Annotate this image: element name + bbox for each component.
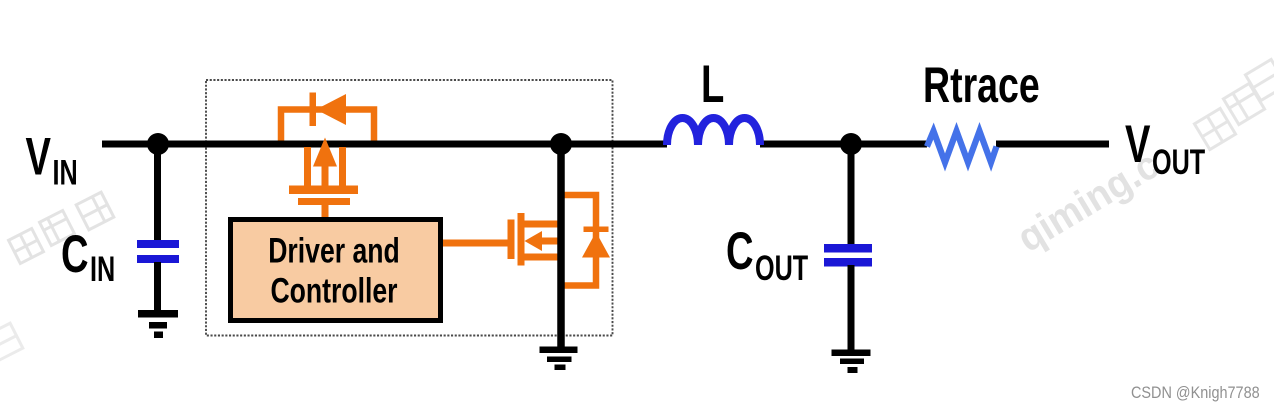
svg-text:C: C: [726, 221, 754, 281]
transistor Q2 (low-side MOSFET): [508, 213, 563, 266]
ground GND3: [832, 350, 871, 374]
watermark top-right glyphs: [1194, 59, 1274, 149]
wire rail inductor to Rtrace: [760, 141, 927, 148]
svg-text:V: V: [1125, 114, 1151, 174]
wire COUT branch lower: [848, 265, 855, 351]
svg-text:IN: IN: [53, 154, 78, 193]
transistor Q1 (high-side MOSFET): [289, 138, 358, 206]
diode D1 cathode bar: [310, 93, 317, 127]
node switch node: [550, 133, 572, 155]
label VOUT: [1125, 114, 1205, 182]
ground GND1: [138, 310, 178, 338]
diode D1 (high-side body diode) loop: [281, 110, 374, 141]
diode D2 cathode bar: [584, 227, 609, 233]
svg-text:OUT: OUT: [755, 249, 808, 288]
inductor L1: [667, 118, 760, 145]
capacitor CIN: [137, 240, 179, 263]
label COUT: [726, 221, 808, 288]
node input junction: [147, 133, 169, 155]
ground GND2: [540, 347, 578, 371]
wire controller to Q2 gate: [443, 240, 509, 247]
watermark left (su ying shi glyphs): [9, 192, 114, 263]
wire COUT branch upper: [848, 144, 855, 245]
node output junction: [840, 133, 862, 155]
label CIN: [61, 224, 115, 289]
svg-text:Rtrace: Rtrace: [923, 58, 1040, 113]
wire CIN branch lower: [154, 262, 161, 311]
svg-text:L: L: [701, 54, 724, 114]
svg-text:V: V: [26, 126, 52, 186]
diode D2 (low-side body diode) loop: [561, 195, 596, 286]
diode D2 triangle: [582, 232, 610, 258]
box U1 Driver and Controller: [231, 220, 441, 321]
wire rail Rtrace to VOUT: [996, 141, 1109, 148]
svg-text:Driver and: Driver and: [268, 231, 400, 270]
svg-text:IN: IN: [90, 250, 115, 289]
wire switch node to ground: [557, 144, 565, 348]
wire main rail VIN to inductor: [102, 141, 667, 148]
capacitor COUT: [824, 244, 872, 267]
svg-text:Controller: Controller: [270, 271, 397, 310]
label VIN: [26, 126, 78, 192]
resistor Rtrace: [927, 131, 997, 163]
watermark bottom-left partial glyph: [0, 323, 23, 361]
wire CIN branch upper: [154, 144, 161, 241]
svg-text:OUT: OUT: [1152, 143, 1205, 182]
svg-text:C: C: [61, 224, 89, 284]
controller enclosure (dotted box): [206, 80, 613, 336]
wire Q1 gate to controller: [322, 205, 329, 218]
diode D1 triangle: [316, 94, 346, 125]
svg-text:CSDN @Knigh7788: CSDN @Knigh7788: [1131, 384, 1260, 402]
